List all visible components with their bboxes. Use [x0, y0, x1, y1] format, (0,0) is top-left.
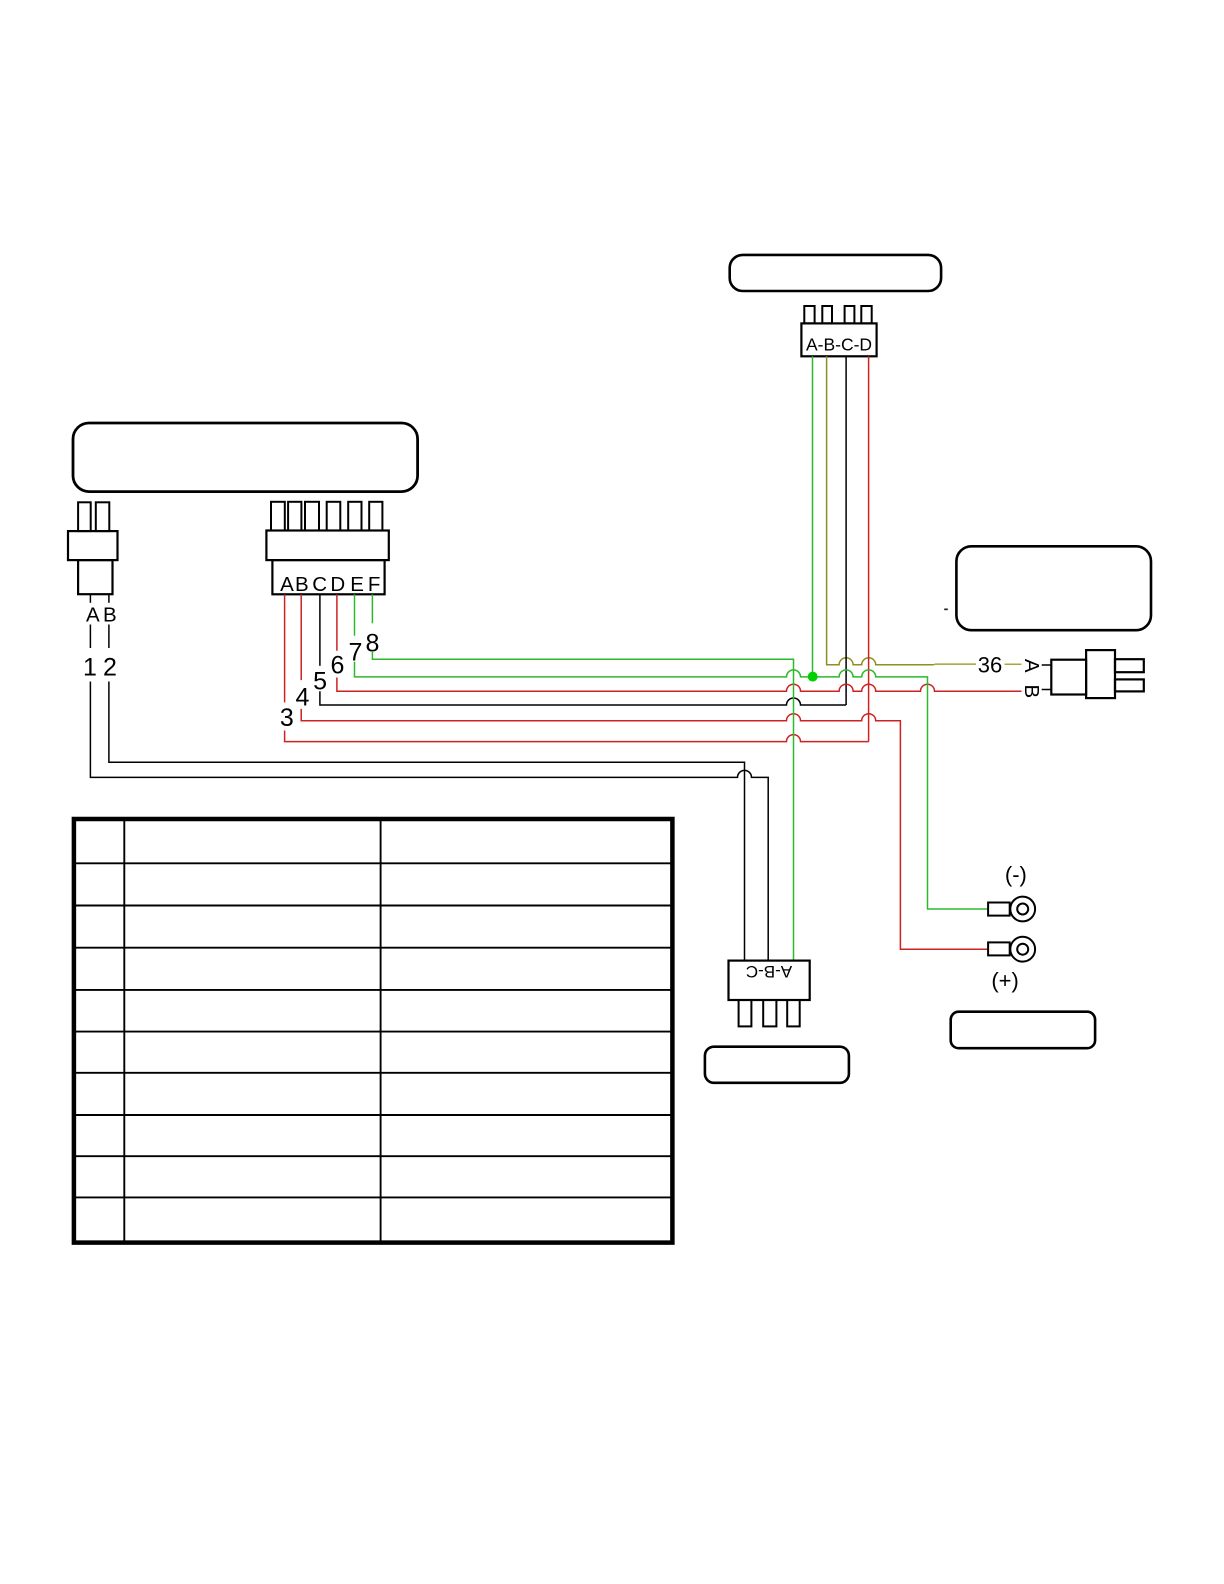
svg-text:F: F	[368, 573, 381, 596]
svg-text:D: D	[330, 573, 345, 596]
ring terminal minus ring	[1010, 897, 1035, 922]
svg-text:A: A	[86, 603, 100, 626]
svg-text:B: B	[103, 603, 117, 626]
wire 4 red seg top	[300, 594, 302, 680]
wire stub B	[108, 594, 110, 603]
svg-text:C: C	[312, 573, 327, 596]
wire 3 red run	[285, 731, 869, 742]
wire 8 green run down to bottom connector	[372, 652, 793, 961]
connector P3 upper body	[266, 531, 388, 561]
wire red pin D vertical joining wire 3	[868, 356, 870, 741]
wire stub A	[89, 594, 91, 603]
connector P2 upper body	[68, 531, 118, 560]
connector P4 prong bottom	[1115, 679, 1144, 691]
wire green pin A vertical	[812, 356, 814, 676]
wire black pin C vertical joining wire 5	[845, 356, 847, 705]
svg-text:B: B	[1020, 684, 1043, 698]
stub to connector B	[1042, 689, 1052, 691]
table column line 1	[123, 819, 125, 1243]
table column line 2	[380, 819, 382, 1243]
ring terminal plus hole	[1017, 944, 1028, 955]
table row lines	[74, 863, 673, 1197]
wire 6 red run to connector B	[337, 678, 1022, 692]
connector P5 A-B-C body	[729, 961, 810, 1000]
connector P3 lower body	[272, 560, 384, 594]
wire A mid stub	[89, 625, 91, 649]
svg-text:3: 3	[280, 704, 294, 732]
svg-text:A-B-C-D: A-B-C-D	[806, 335, 872, 355]
label box top (speed sensor)	[730, 255, 941, 291]
wire 7 green seg top	[354, 594, 356, 635]
connector P2 lower body	[78, 560, 112, 594]
svg-text:A: A	[280, 573, 294, 596]
connector P2 2-pin pins	[78, 502, 109, 531]
wire 5 black run	[320, 691, 846, 705]
label box bottom right (battery)	[951, 1012, 1095, 1048]
label box right (power harness)	[956, 546, 1151, 630]
wire 1 black run	[90, 682, 768, 961]
ring terminal plus ring	[1010, 937, 1035, 962]
ring terminal minus barrel	[988, 903, 1010, 916]
connector P4 prong top	[1115, 659, 1144, 672]
wire 4 red run to plus terminal	[301, 709, 988, 949]
ring terminal minus hole	[1017, 904, 1028, 915]
wire 7 green run to minus terminal	[355, 662, 989, 909]
svg-text:7: 7	[349, 639, 363, 667]
stray dash	[944, 609, 948, 611]
svg-text:5: 5	[313, 667, 327, 695]
wire 3 red seg top	[284, 594, 286, 702]
wire B mid stub	[108, 625, 110, 649]
svg-text:A-B-C: A-B-C	[746, 962, 792, 981]
svg-text:2: 2	[103, 654, 117, 682]
junction dot green	[808, 672, 818, 682]
svg-text:B: B	[295, 573, 309, 596]
svg-text:4: 4	[296, 684, 310, 712]
wire 8 green seg top	[371, 594, 373, 623]
label box left (control head)	[73, 423, 418, 492]
connector P1 A-B-C-D body	[801, 323, 876, 356]
table outer border	[74, 819, 673, 1243]
wire 5 black seg top	[319, 594, 321, 666]
svg-text:6: 6	[330, 652, 344, 680]
wire olive lighter segment	[934, 663, 977, 666]
connector P4 center box	[1086, 650, 1115, 698]
wire 6 red seg top	[336, 594, 338, 650]
svg-text:(-): (-)	[1005, 862, 1027, 887]
wire olive pin B to 36/A	[827, 356, 934, 665]
svg-text:(+): (+)	[991, 968, 1019, 993]
connector P4 left box	[1051, 660, 1086, 695]
svg-text:E: E	[350, 573, 364, 596]
ring terminal plus barrel	[988, 942, 1010, 955]
connector P5 pins	[739, 1000, 800, 1026]
connector P1 A-B-C-D pins	[804, 306, 871, 323]
label box bottom middle (tachometer)	[705, 1047, 849, 1083]
wire 2 black run	[109, 682, 745, 961]
svg-text:36: 36	[978, 653, 1002, 678]
svg-text:1: 1	[83, 654, 97, 682]
wire olive stub after 36	[1005, 663, 1022, 665]
stub to connector A	[1042, 664, 1052, 666]
connector P3 6-pin pins	[271, 502, 382, 531]
svg-text:A: A	[1020, 659, 1043, 673]
